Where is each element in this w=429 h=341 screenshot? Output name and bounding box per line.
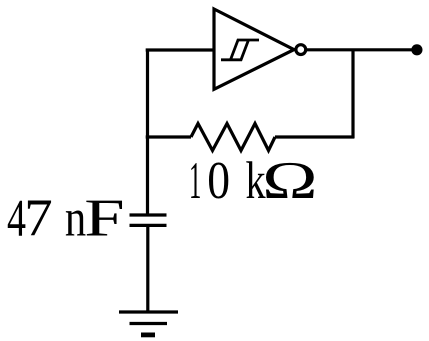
svg-text:n: n bbox=[65, 190, 86, 248]
wire left vertical (input node down to capacitor) bbox=[146, 49, 149, 215]
wire input (junction to inverter input) bbox=[146, 48, 214, 51]
node output terminal dot bbox=[411, 44, 422, 55]
resistor R1 bbox=[191, 124, 275, 151]
svg-text:0: 0 bbox=[207, 152, 230, 210]
capacitor C1 bottom plate bbox=[130, 224, 167, 227]
svg-text:1: 1 bbox=[189, 152, 201, 210]
svg-text:F: F bbox=[84, 190, 124, 248]
wire feedback left (node to resistor) bbox=[146, 135, 191, 138]
op-amp U1 (Schmitt-trigger inverter triangle) bbox=[214, 9, 294, 89]
ground bbox=[119, 312, 178, 335]
wire right vertical (feedback up to output) bbox=[351, 50, 354, 138]
hysteresis symbol bbox=[221, 40, 259, 60]
capacitor C1 top plate bbox=[130, 213, 167, 216]
svg-text:Ω: Ω bbox=[262, 152, 318, 210]
wire capacitor to ground bbox=[146, 225, 149, 312]
wire output bbox=[307, 48, 417, 51]
inverter output bubble bbox=[296, 45, 306, 55]
wire feedback right (resistor to right vertical) bbox=[275, 135, 354, 138]
svg-text:7: 7 bbox=[24, 190, 53, 248]
